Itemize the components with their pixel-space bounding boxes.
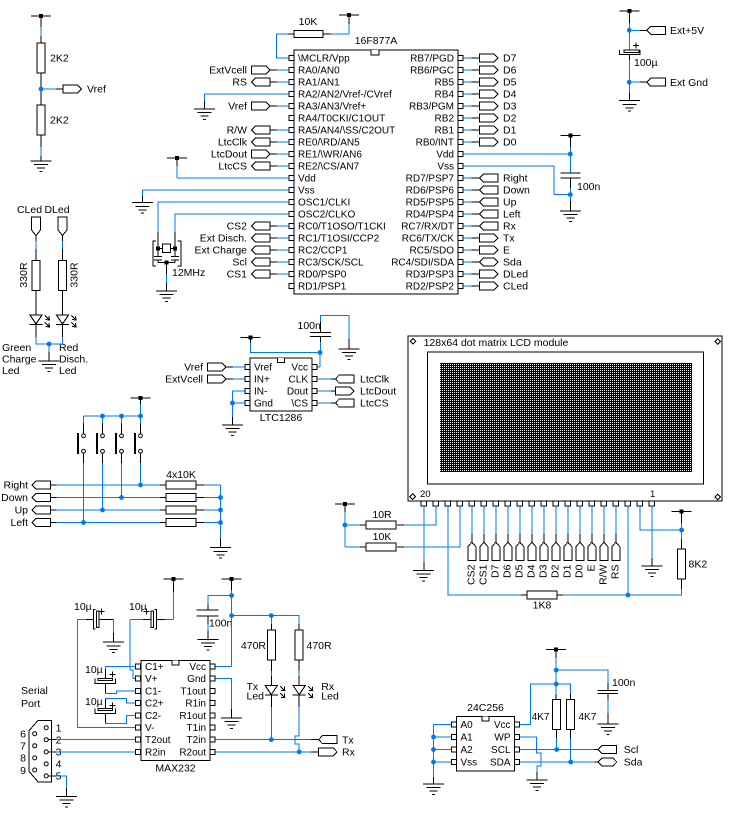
svg-text:D5: D5 xyxy=(514,564,526,578)
connector D0 (PIC RB0) xyxy=(463,137,517,149)
wire LED1 to T2in net xyxy=(270,695,272,740)
wire LED cathodes to ground xyxy=(36,325,63,362)
svg-text:10µ: 10µ xyxy=(85,696,103,708)
svg-text:10R: 10R xyxy=(372,509,392,521)
wire RA2 to ground xyxy=(205,94,290,109)
resistor R12 4K7 xyxy=(532,699,561,729)
svg-text:5: 5 xyxy=(56,771,62,783)
label 4x10K xyxy=(166,469,196,481)
wire to 10R xyxy=(345,524,366,526)
power rail +5V (LCD aux) xyxy=(335,502,355,525)
wire OSC2 xyxy=(175,214,289,248)
svg-text:LTC1286: LTC1286 xyxy=(260,412,303,424)
svg-text:LtcDout: LtcDout xyxy=(360,386,396,398)
connector D2 (LCD) xyxy=(550,506,562,578)
ground (C9) xyxy=(597,724,618,735)
svg-text:Up: Up xyxy=(503,197,517,209)
LED red discharge xyxy=(56,315,88,377)
connector D0 (LCD) xyxy=(574,506,586,578)
connector ExtVcell (LTC) xyxy=(165,374,245,386)
svg-text:RD2/PSP2: RD2/PSP2 xyxy=(406,282,455,293)
connector ExtCharge (PIC RC2) xyxy=(194,245,289,257)
junction rail b4 xyxy=(138,414,143,419)
connector D4 (LCD) xyxy=(526,506,538,578)
svg-text:Ext+5V: Ext+5V xyxy=(670,25,704,37)
svg-text:100n: 100n xyxy=(298,320,322,332)
svg-text:RD1/PSP1: RD1/PSP1 xyxy=(298,282,347,293)
svg-text:Ext Gnd: Ext Gnd xyxy=(670,77,708,89)
svg-text:Down: Down xyxy=(503,185,530,197)
junction OSC2 node xyxy=(173,246,177,250)
svg-text:D2: D2 xyxy=(503,113,517,125)
connector E (PIC right) xyxy=(463,245,510,257)
svg-text:RC6/TX/CK: RC6/TX/CK xyxy=(402,234,455,245)
svg-text:C2+: C2+ xyxy=(145,699,164,710)
junction 10R node xyxy=(343,523,348,528)
resistor R9 10K xyxy=(366,531,396,551)
connector Right (buttons) xyxy=(3,480,160,492)
connector DLed (PIC right) xyxy=(463,269,528,281)
svg-text:V+: V+ xyxy=(145,674,158,685)
connector Vref (PIC RA3) xyxy=(228,101,289,113)
wire DLed to R4 xyxy=(62,236,64,261)
wire C2 to ExtGnd xyxy=(628,54,630,100)
junction T2in node xyxy=(269,737,274,742)
wire LCD pin18 (bus) xyxy=(448,506,527,595)
wire DB9 pin2 to T2out xyxy=(48,739,135,741)
LED green charge xyxy=(2,315,50,377)
svg-text:Vcc: Vcc xyxy=(189,662,206,673)
junction A1 xyxy=(431,735,436,740)
svg-text:DLed: DLed xyxy=(503,269,528,281)
resistor RRight 10K xyxy=(160,481,221,489)
wire DB9 pin5 to ground xyxy=(48,776,66,797)
wire Vcc rail down xyxy=(216,596,232,667)
svg-text:8K2: 8K2 xyxy=(689,559,708,571)
svg-text:D2: D2 xyxy=(550,564,562,578)
junction LED1 rail xyxy=(269,613,274,618)
switch S4 push button xyxy=(135,416,142,454)
wire Vdd left xyxy=(177,177,289,179)
connector RS (LCD) xyxy=(610,506,622,579)
svg-text:Gnd: Gnd xyxy=(254,399,273,410)
ground (C4) xyxy=(103,642,124,653)
svg-text:RD3/PSP3: RD3/PSP3 xyxy=(406,270,455,281)
power rail +5V (voltage divider) xyxy=(31,14,51,43)
connector DLed (top) xyxy=(44,204,69,236)
wire C4 to V- xyxy=(78,619,136,727)
svg-text:RA3/AN3/Vref+: RA3/AN3/Vref+ xyxy=(298,102,366,113)
IC U4 24C256 xyxy=(451,702,519,771)
connector Rx (MAX232) xyxy=(319,747,356,759)
wire SDA row xyxy=(520,761,598,763)
svg-text:100n: 100n xyxy=(612,677,636,689)
svg-text:RS: RS xyxy=(232,77,247,89)
connector Tx (PIC right) xyxy=(463,233,515,245)
svg-text:Led: Led xyxy=(2,365,20,377)
svg-text:RC7/RX/DT: RC7/RX/DT xyxy=(401,222,454,233)
ground (EEPROM) xyxy=(423,784,444,795)
svg-text:RB7/PGD: RB7/PGD xyxy=(410,54,454,65)
switch S3 push button xyxy=(116,416,123,454)
svg-text:CLK: CLK xyxy=(289,375,309,386)
IC U2 LTC1286 xyxy=(245,358,317,424)
ground (Ext) xyxy=(619,101,640,112)
svg-text:R/W: R/W xyxy=(227,125,248,137)
power rail +5V (MAX232 V+) xyxy=(164,577,184,619)
junction node Vref xyxy=(39,87,44,92)
crystal X1 12MHz xyxy=(153,241,205,279)
svg-text:4K7: 4K7 xyxy=(579,712,597,723)
wire SCL row xyxy=(520,749,598,751)
svg-text:CLed: CLed xyxy=(503,281,528,293)
connector LtcCS (LTC) xyxy=(318,398,389,410)
svg-text:330R: 330R xyxy=(18,262,30,288)
svg-text:Scl: Scl xyxy=(232,257,247,269)
svg-text:LtcClk: LtcClk xyxy=(360,374,390,386)
wire resistor bus xyxy=(220,485,222,548)
junction C6 node xyxy=(229,593,234,598)
svg-text:7: 7 xyxy=(20,741,26,753)
wire C4 to ground xyxy=(113,619,115,642)
connector J1 serial port DB9 xyxy=(20,685,61,783)
svg-text:Serial: Serial xyxy=(21,685,48,697)
power rail +5V (Ext) xyxy=(619,9,639,50)
wire LCD pin1 to ground xyxy=(651,506,653,566)
svg-text:RD4/PSP4: RD4/PSP4 xyxy=(406,210,455,221)
svg-text:Led: Led xyxy=(247,691,265,703)
connector Ext+5V xyxy=(632,25,704,37)
svg-text:Vref: Vref xyxy=(184,362,203,374)
power rail +5V (buttons) xyxy=(131,396,151,416)
wire to C9 xyxy=(556,670,608,690)
connector Sda (EEPROM) xyxy=(598,757,642,769)
svg-text:D7: D7 xyxy=(503,53,517,65)
connector D2 (PIC RB2) xyxy=(463,113,517,125)
svg-text:RC5/SDO: RC5/SDO xyxy=(410,246,455,257)
svg-text:Ext Disch.: Ext Disch. xyxy=(200,233,247,245)
wire 8K2 to bus xyxy=(557,579,681,595)
wire LED rail xyxy=(232,616,300,630)
junction bus pin3 xyxy=(626,593,631,598)
ground (crystal) xyxy=(156,291,177,302)
svg-text:D4: D4 xyxy=(503,89,517,101)
svg-text:6: 6 xyxy=(20,729,26,741)
ground (Vss left) xyxy=(132,203,153,214)
junction LCD Vdd node xyxy=(679,528,684,533)
wire +5V to C6 xyxy=(208,596,232,611)
svg-text:RA2/AN2/Vref-/CVref: RA2/AN2/Vref-/CVref xyxy=(298,90,392,101)
capacitor C3 100n (LTC) xyxy=(298,320,332,337)
svg-text:RE1/\WR/AN6: RE1/\WR/AN6 xyxy=(298,150,362,161)
svg-text:A2: A2 xyxy=(461,745,474,756)
svg-text:Vref: Vref xyxy=(254,363,272,374)
junction Vss xyxy=(431,760,436,765)
svg-text:CLed: CLed xyxy=(17,204,42,216)
connector Rx (PIC right) xyxy=(463,221,517,233)
connector D3 (LCD) xyxy=(538,506,550,578)
switch S1 push button xyxy=(78,416,85,454)
junction LTC Vcc node xyxy=(318,350,323,355)
capacitor C9 100n (EEPROM) xyxy=(598,677,636,694)
svg-text:128x64 dot matrix LCD module: 128x64 dot matrix LCD module xyxy=(424,337,569,349)
svg-text:D0: D0 xyxy=(574,564,586,578)
junction ExtGnd node xyxy=(627,80,632,85)
connector Right (PIC right) xyxy=(463,173,528,185)
svg-text:RB5: RB5 xyxy=(435,78,455,89)
resistor R10 470R xyxy=(241,630,275,660)
svg-text:E: E xyxy=(503,245,510,257)
svg-text:D1: D1 xyxy=(562,564,574,578)
svg-text:D3: D3 xyxy=(503,101,517,113)
ground (LCD pin1) xyxy=(641,566,662,577)
junction bus1 xyxy=(218,495,223,500)
capacitor C5 10u (V+) xyxy=(129,601,165,629)
wire DB9 pin3 to R2in xyxy=(48,751,135,753)
ground (divider) xyxy=(31,161,52,172)
wire C5 to +5V xyxy=(165,618,174,620)
svg-text:A0: A0 xyxy=(461,720,474,731)
wire 470R-1 top xyxy=(270,616,272,630)
junction S4 node xyxy=(138,483,143,488)
wire CLed to R3 xyxy=(35,236,37,261)
power rail +5V (MAX232 Vcc) xyxy=(222,577,242,596)
svg-text:Disch.: Disch. xyxy=(59,354,88,366)
svg-text:Left: Left xyxy=(503,209,521,221)
ground (MAX232) xyxy=(221,718,242,729)
resistor RLeft 10K xyxy=(160,519,221,527)
power rail +5V (LCD) xyxy=(672,509,692,549)
connector Up (buttons) xyxy=(15,505,160,517)
wire 4K7-2 bottom xyxy=(570,729,572,762)
power rail +5V (MCLR) xyxy=(339,13,359,34)
wire OSC1 xyxy=(158,202,289,248)
svg-text:D0: D0 xyxy=(503,137,517,149)
power rail +5V (LTC) xyxy=(241,336,318,353)
wire to 10K xyxy=(345,525,366,547)
svg-text:D6: D6 xyxy=(502,564,514,578)
wire LCD pin19 (10R) xyxy=(397,506,436,525)
connector Scl (PIC RC3) xyxy=(232,257,289,269)
svg-text:16F877A: 16F877A xyxy=(355,35,398,47)
connector D3 (PIC RB3) xyxy=(463,101,517,113)
connector CS1 (LCD) xyxy=(478,506,490,585)
wire R4 to LED xyxy=(62,290,64,315)
capacitor C1 100n xyxy=(561,173,601,193)
svg-text:10µ: 10µ xyxy=(74,601,92,613)
svg-text:\MCLR/Vpp: \MCLR/Vpp xyxy=(298,54,350,65)
svg-text:RS: RS xyxy=(610,565,622,580)
resistor R5 10K xyxy=(294,16,323,38)
wire 4K7-1 top xyxy=(555,684,557,699)
svg-text:R/W: R/W xyxy=(598,564,610,585)
junction rail b2 xyxy=(100,414,105,419)
svg-text:10K: 10K xyxy=(373,531,392,543)
svg-text:24C256: 24C256 xyxy=(467,702,504,714)
svg-text:R1out: R1out xyxy=(179,711,206,722)
junction LTC gnd node xyxy=(230,401,235,406)
svg-text:100n: 100n xyxy=(209,618,233,630)
LED Rx xyxy=(293,681,339,703)
wire button top rail xyxy=(84,415,141,417)
wire C1 lower xyxy=(569,178,571,211)
connector CLed (PIC right) xyxy=(463,281,528,293)
svg-text:Sda: Sda xyxy=(624,757,643,769)
svg-text:RE2/\CS/AN7: RE2/\CS/AN7 xyxy=(298,162,360,173)
connector D4 (PIC RB4) xyxy=(463,89,517,101)
svg-text:RC0/T1OSO/T1CKI: RC0/T1OSO/T1CKI xyxy=(298,222,386,233)
capacitor C4 10u (V-) xyxy=(74,601,114,629)
svg-text:Green: Green xyxy=(2,342,31,354)
wire C3 top to ground xyxy=(321,316,349,350)
connector D6 (LCD) xyxy=(502,506,514,578)
svg-text:RC4/SDI/SDA: RC4/SDI/SDA xyxy=(391,258,454,269)
resistor RDown 10K xyxy=(160,494,221,502)
svg-text:CS2: CS2 xyxy=(466,564,478,585)
connector D7 (LCD) xyxy=(490,506,502,578)
junction crystal ground node xyxy=(165,261,169,265)
connector LtcCS (PIC RE2) xyxy=(218,161,289,173)
svg-text:Port: Port xyxy=(21,698,40,710)
junction EEPROM p2 xyxy=(554,682,559,687)
svg-text:D1: D1 xyxy=(503,125,517,137)
switch S2 push button xyxy=(97,416,104,454)
junction A2 xyxy=(431,747,436,752)
ground (WP) xyxy=(527,780,548,791)
svg-text:3: 3 xyxy=(56,747,62,759)
junction S2 node xyxy=(100,508,105,513)
svg-text:D3: D3 xyxy=(538,564,550,578)
resistor R2 2K2 xyxy=(37,105,69,135)
connector Down (buttons) xyxy=(1,492,160,504)
connector ExtVcell (PIC RA0) xyxy=(209,65,289,77)
connector LtcClk (LTC) xyxy=(318,374,390,386)
connector D1 (PIC RB1) xyxy=(463,125,517,137)
wire 4K7-1 bottom xyxy=(556,729,558,749)
svg-text:R1in: R1in xyxy=(185,699,206,710)
svg-text:LtcCS: LtcCS xyxy=(360,398,389,410)
svg-text:Sda: Sda xyxy=(503,257,522,269)
wire WP to ground xyxy=(520,737,541,780)
svg-text:Vss: Vss xyxy=(437,162,454,173)
wire C8 to C2- xyxy=(105,713,135,723)
wire IN- to Gnd xyxy=(232,391,245,403)
ground (LCD pin20) xyxy=(413,571,434,582)
wire S4 to row xyxy=(140,453,142,485)
connector Scl (EEPROM) xyxy=(598,744,638,756)
wire R3 to LED xyxy=(35,290,37,315)
svg-text:Right: Right xyxy=(3,480,28,492)
svg-text:Vref: Vref xyxy=(87,84,106,96)
resistor R6 8K2 xyxy=(678,549,708,579)
svg-text:D7: D7 xyxy=(490,564,502,578)
svg-text:C2-: C2- xyxy=(145,711,161,722)
wire LCD pin3 (bus) xyxy=(627,506,629,595)
resistor R1 2K2 xyxy=(37,43,69,73)
ground (LED) xyxy=(39,361,60,372)
svg-text:Vcc: Vcc xyxy=(291,363,308,374)
svg-text:Left: Left xyxy=(10,517,28,529)
svg-text:2: 2 xyxy=(56,735,62,747)
junction Vdd/C node xyxy=(568,152,573,157)
connector LtcDout (LTC) xyxy=(318,386,397,398)
wire Vref tap xyxy=(43,88,63,90)
ground (C6) xyxy=(197,640,218,651)
IC U1 PIC 16F877A xyxy=(289,35,463,294)
LCD module 128x64 xyxy=(408,336,722,506)
svg-text:T1out: T1out xyxy=(180,686,206,697)
svg-text:RA0/AN0: RA0/AN0 xyxy=(298,66,340,77)
connector Left (PIC right) xyxy=(463,209,521,221)
connector Vref (output) xyxy=(63,84,106,96)
svg-text:RD5/PSP5: RD5/PSP5 xyxy=(406,198,455,209)
svg-text:2K2: 2K2 xyxy=(50,115,69,127)
svg-text:D5: D5 xyxy=(503,77,517,89)
connector Sda (PIC right) xyxy=(463,257,522,269)
svg-text:12MHz: 12MHz xyxy=(172,267,205,279)
wire S3 to row xyxy=(121,453,123,497)
ground (PIC 100n) xyxy=(560,211,581,222)
svg-text:4K7: 4K7 xyxy=(532,712,550,723)
svg-text:SCL: SCL xyxy=(491,745,511,756)
junction R2out node xyxy=(297,750,302,755)
svg-text:T1in: T1in xyxy=(187,723,206,734)
connector ExtGnd xyxy=(632,77,708,89)
wire MCLR pullup left xyxy=(277,34,295,58)
svg-text:Vref: Vref xyxy=(228,101,247,113)
svg-text:Vcc: Vcc xyxy=(494,720,511,731)
wire LCD pin20 to ground xyxy=(423,506,425,571)
connector LtcDout (PIC RE1) xyxy=(211,149,289,161)
wire crystal to ground xyxy=(166,263,168,291)
svg-text:OSC2/CLKO: OSC2/CLKO xyxy=(298,210,355,221)
svg-text:470R: 470R xyxy=(241,640,267,652)
svg-text:SDA: SDA xyxy=(490,758,511,769)
junction S3 node xyxy=(119,495,124,500)
resistor R13 4K7 xyxy=(567,699,597,729)
power rail +5V (PIC Vdd left) xyxy=(167,156,187,178)
ground (RA2) xyxy=(194,109,215,120)
connector Vref (LTC) xyxy=(184,362,245,374)
resistor R8 10R xyxy=(366,509,396,529)
svg-text:LtcClk: LtcClk xyxy=(218,137,248,149)
junction bus2 xyxy=(218,508,223,513)
wire MCLR pullup right xyxy=(323,33,349,35)
svg-text:ExtVcell: ExtVcell xyxy=(165,374,203,386)
wire LCD pin17 (10K) xyxy=(397,506,460,547)
junction LED rail node xyxy=(229,613,234,618)
svg-text:RD0/PSP0: RD0/PSP0 xyxy=(298,270,347,281)
svg-text:RE0/\RD/AN5: RE0/\RD/AN5 xyxy=(298,138,360,149)
svg-text:10µ: 10µ xyxy=(85,664,103,676)
connector R/W (LCD) xyxy=(598,506,610,585)
wire C8 to C2+ xyxy=(105,698,135,703)
connector D7 (PIC RB7) xyxy=(463,53,517,65)
svg-text:Led: Led xyxy=(59,365,77,377)
svg-text:Up: Up xyxy=(15,505,29,517)
connector CS2 (PIC RC0) xyxy=(227,221,289,233)
svg-text:Charge: Charge xyxy=(2,354,37,366)
wire C7 to C1+ xyxy=(105,667,135,670)
junction OSC1 node xyxy=(156,246,160,250)
svg-text:D4: D4 xyxy=(526,564,538,578)
svg-text:R2in: R2in xyxy=(145,747,166,758)
wire LCD pin2 (Vdd) xyxy=(640,506,682,530)
junction Vss/C node xyxy=(568,192,573,197)
svg-text:Rx: Rx xyxy=(342,747,356,759)
svg-text:RB4: RB4 xyxy=(435,90,455,101)
wire 4K7-2 top xyxy=(556,684,571,699)
